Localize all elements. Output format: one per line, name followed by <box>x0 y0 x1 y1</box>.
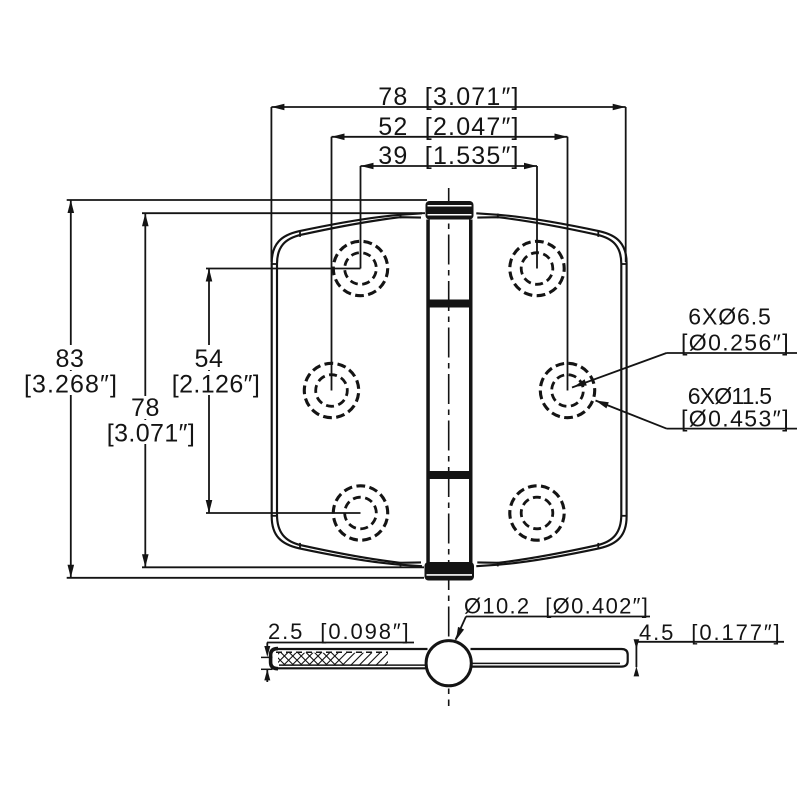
svg-text:Ø10.2 [Ø0.402″]: Ø10.2 [Ø0.402″] <box>464 594 649 619</box>
svg-text:52 [2.047″]: 52 [2.047″] <box>378 113 519 141</box>
svg-text:6XØ6.5: 6XØ6.5 <box>688 304 771 330</box>
svg-text:[3.268″]: [3.268″] <box>24 371 118 399</box>
svg-text:78 [3.071″]: 78 [3.071″] <box>378 83 519 111</box>
svg-text:4.5 [0.177″]: 4.5 [0.177″] <box>639 620 782 645</box>
svg-text:2.5 [0.098″]: 2.5 [0.098″] <box>268 619 411 644</box>
svg-text:83: 83 <box>55 345 84 373</box>
svg-text:[Ø0.453″]: [Ø0.453″] <box>681 406 790 432</box>
svg-text:78: 78 <box>131 394 160 422</box>
svg-text:[3.071″]: [3.071″] <box>107 420 196 448</box>
svg-text:[2.126″]: [2.126″] <box>172 371 261 399</box>
svg-text:54: 54 <box>194 345 223 373</box>
svg-text:39 [1.535″]: 39 [1.535″] <box>378 142 519 170</box>
svg-text:[Ø0.256″]: [Ø0.256″] <box>681 330 790 356</box>
